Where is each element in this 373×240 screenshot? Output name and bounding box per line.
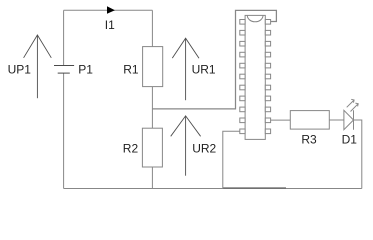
svg-text:I1: I1 (105, 18, 115, 32)
svg-text:R3: R3 (301, 132, 317, 146)
svg-text:R1: R1 (123, 62, 139, 76)
svg-text:UP1: UP1 (8, 62, 32, 76)
svg-text:R2: R2 (123, 142, 139, 156)
svg-text:P1: P1 (78, 62, 93, 76)
svg-text:D1: D1 (342, 132, 358, 146)
svg-text:UR1: UR1 (192, 62, 216, 76)
svg-text:UR2: UR2 (192, 142, 216, 156)
